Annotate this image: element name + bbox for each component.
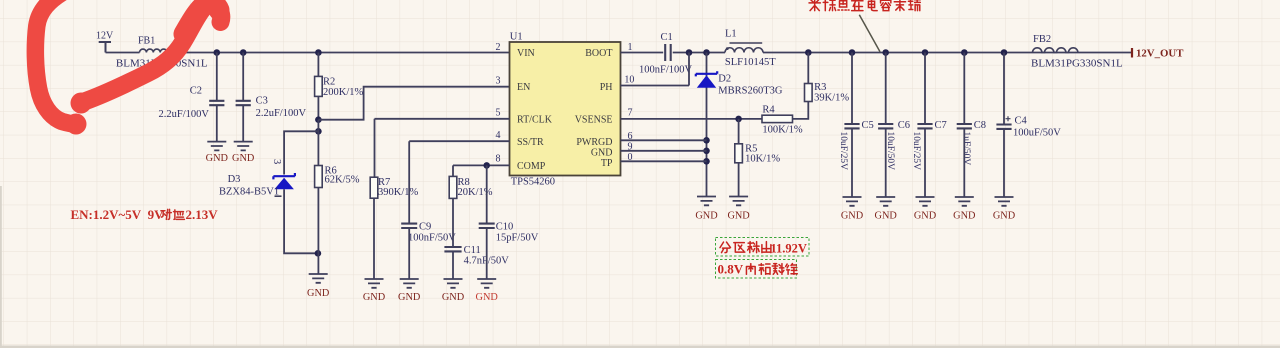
annotation EN CJK duiying	[161, 209, 171, 219]
capacitor C4	[996, 125, 1011, 129]
junction C4 on output rail	[1001, 49, 1008, 56]
wire L1 to output rail	[763, 52, 1132, 54]
wire PH feedback	[621, 53, 690, 86]
wire C8 upper lead	[963, 53, 965, 125]
wire BOOT to C1	[621, 52, 664, 54]
svg-text:GND: GND	[727, 211, 750, 222]
junction R3 on output rail	[805, 49, 812, 56]
wire C7 lower lead	[924, 128, 926, 197]
junction COMP C10	[483, 162, 490, 169]
ground symbol C3	[234, 142, 253, 151]
annotation callout line	[859, 15, 880, 52]
op-amp U1 TPS54260 body	[510, 42, 621, 176]
svg-text:D3: D3	[228, 174, 241, 185]
junction VSENSE R5	[735, 116, 742, 123]
junction C6 on output rail	[882, 49, 889, 56]
capacitor C9	[401, 224, 417, 228]
capacitor C3	[236, 101, 251, 105]
svg-text:8: 8	[496, 154, 501, 165]
wire R7 lower lead	[373, 198, 375, 279]
svg-text:EN:1.2V~5V 9V: EN:1.2V~5V 9V	[71, 207, 165, 222]
svg-text:GND: GND	[591, 148, 613, 159]
svg-text:C9: C9	[419, 222, 431, 233]
ferrite bead FB1	[140, 49, 168, 52]
svg-text:GND: GND	[398, 292, 421, 303]
wire D3 cathode net	[284, 131, 318, 174]
junction C2 on input rail	[214, 49, 221, 56]
wire C2 upper lead	[216, 53, 218, 101]
svg-text:GND: GND	[993, 211, 1016, 222]
annotation box divider output	[716, 238, 810, 257]
svg-text:100nF/100V: 100nF/100V	[639, 65, 693, 76]
wire EN net to IC	[318, 87, 509, 120]
junction BOOT-PH node	[686, 49, 693, 56]
svg-text:7: 7	[628, 108, 633, 119]
svg-text:C5: C5	[862, 120, 874, 131]
wire C10 lower lead	[486, 228, 488, 279]
wire D3 anode pin tick	[275, 195, 282, 197]
inductor L1 shield bar	[730, 42, 763, 44]
wire COMP net	[453, 165, 510, 176]
wire C3 upper lead	[242, 53, 244, 101]
svg-text:GND: GND	[476, 292, 499, 303]
wire VSENSE net	[621, 118, 763, 120]
wire R2 to R6	[317, 120, 319, 166]
annotation box internal ref	[716, 260, 797, 279]
wire R6 lower lead	[317, 188, 319, 275]
wire R2 upper lead	[317, 53, 319, 77]
junction R2 on input rail	[315, 49, 322, 56]
svg-text:2: 2	[496, 42, 501, 53]
wire 12V to FB1	[106, 52, 140, 54]
svg-text:C3: C3	[256, 96, 268, 107]
svg-text:100K/1%: 100K/1%	[762, 125, 803, 136]
wire C5 lower lead	[851, 128, 853, 197]
wire FB1 to VIN rail	[167, 52, 509, 54]
wire R5 upper lead	[738, 119, 740, 144]
ground symbol C6	[876, 197, 895, 206]
junction C5 on output rail	[849, 49, 856, 56]
wire D3 anode down	[284, 189, 318, 253]
svg-text:1: 1	[628, 42, 633, 53]
svg-text:RT/CLK: RT/CLK	[517, 114, 553, 125]
junction D2 node	[703, 49, 710, 56]
ferrite bead FB2	[1033, 48, 1078, 53]
svg-text:11.92V: 11.92V	[771, 242, 807, 256]
svg-text:10: 10	[624, 75, 634, 86]
ground symbol C4	[995, 197, 1014, 206]
schottky diode D2	[696, 71, 717, 76]
svg-text:2.2uF/100V: 2.2uF/100V	[159, 109, 210, 120]
ground symbol C8	[955, 197, 974, 206]
svg-text:TP: TP	[601, 158, 613, 169]
svg-text:GND: GND	[953, 211, 976, 222]
capacitor C6	[878, 124, 893, 128]
resistor R8	[449, 176, 457, 198]
wire R8 to C11	[452, 198, 454, 247]
wire C5 upper lead	[851, 53, 853, 125]
svg-text:GND: GND	[914, 211, 937, 222]
svg-text:GND: GND	[206, 153, 229, 164]
svg-text:C6: C6	[898, 120, 910, 131]
junction GND pin on D2 net	[703, 148, 710, 155]
inductor L1	[725, 48, 763, 53]
resistor R4	[762, 115, 793, 122]
capacitor C2	[209, 101, 224, 105]
ground symbol R7	[365, 279, 384, 288]
svg-text:C2: C2	[190, 86, 202, 97]
svg-text:TPS54260: TPS54260	[511, 177, 555, 188]
port 12V_OUT tick	[1131, 48, 1133, 58]
wire RT/CLK net	[375, 119, 510, 177]
annotation internal ref CJK	[746, 264, 755, 275]
svg-text:PWRGD: PWRGD	[576, 137, 612, 148]
annotation sampling point text	[809, 0, 820, 11]
wire C4 upper lead	[1003, 53, 1005, 125]
svg-text:BOOT: BOOT	[585, 48, 612, 59]
wire R2 lower lead	[317, 96, 319, 119]
svg-text:PH: PH	[600, 82, 613, 93]
wire GND pin stub	[621, 150, 707, 152]
wire SS/TR net	[409, 141, 509, 223]
svg-text:200K/1%: 200K/1%	[323, 87, 364, 98]
svg-text:2.2uF/100V: 2.2uF/100V	[256, 108, 307, 119]
svg-text:C4: C4	[1015, 116, 1028, 127]
wire C3 lower lead	[242, 105, 244, 141]
capacitor C11	[444, 247, 461, 251]
svg-text:0.8V: 0.8V	[718, 262, 744, 277]
junction C3 on input rail	[240, 49, 247, 56]
ground symbol D2	[697, 197, 716, 206]
wire C4 lower lead	[1003, 129, 1005, 197]
wire C2 lower lead	[216, 105, 218, 141]
svg-text:SLF10145T: SLF10145T	[725, 57, 776, 68]
svg-text:COMP: COMP	[517, 161, 546, 172]
junction D3 R6 ground node	[315, 250, 322, 257]
capacitor C5	[844, 124, 859, 128]
resistor R7	[370, 177, 378, 198]
resistor R3	[805, 84, 813, 102]
wire R5 lower lead	[738, 163, 740, 197]
svg-text:EN: EN	[517, 82, 530, 93]
svg-text:10uF/25V: 10uF/25V	[911, 132, 921, 171]
svg-text:390K/1%: 390K/1%	[378, 187, 419, 198]
photo bottom edge shading	[0, 346, 1280, 348]
svg-text:R4: R4	[762, 105, 775, 116]
red marker diagonal stroke	[80, 4, 221, 103]
wire C8 lower lead	[963, 128, 965, 197]
annotation divider output CJK	[720, 242, 731, 253]
red marker left arc	[35, 0, 75, 124]
svg-text:GND: GND	[695, 211, 718, 222]
svg-text:C11: C11	[464, 245, 481, 256]
ground symbol R6 D3	[309, 274, 328, 283]
svg-text:GND: GND	[841, 211, 864, 222]
wire R3 upper lead	[807, 53, 809, 84]
svg-text:L1: L1	[725, 29, 737, 40]
svg-text:VIN: VIN	[517, 48, 535, 59]
svg-text:62K/5%: 62K/5%	[325, 175, 360, 186]
svg-text:GND: GND	[307, 288, 330, 299]
resistor R5	[735, 144, 743, 163]
svg-text:FB1: FB1	[138, 36, 155, 47]
svg-text:C7: C7	[935, 120, 947, 131]
svg-text:GND: GND	[363, 292, 386, 303]
ground symbol R5	[729, 197, 748, 206]
svg-text:15pF/50V: 15pF/50V	[496, 233, 539, 244]
svg-text:D2: D2	[718, 74, 731, 85]
wire C10 upper lead	[486, 165, 488, 223]
svg-text:C1: C1	[661, 32, 673, 43]
svg-text:VSENSE: VSENSE	[575, 114, 613, 125]
svg-text:5: 5	[496, 108, 501, 119]
svg-text:MBRS260T3G: MBRS260T3G	[718, 86, 783, 97]
svg-text:U1: U1	[510, 32, 523, 43]
svg-text:SS/TR: SS/TR	[517, 137, 544, 148]
wire C1 to PH node	[673, 52, 725, 54]
power port 12V bar symbol	[99, 42, 111, 53]
wire C9 lower lead	[408, 228, 410, 279]
svg-text:GND: GND	[875, 211, 898, 222]
ground symbol C2	[207, 142, 226, 151]
svg-text:100nF/50V: 100nF/50V	[408, 233, 456, 244]
svg-text:BZX84-B5V1: BZX84-B5V1	[219, 187, 279, 198]
zener diode D3	[273, 173, 295, 179]
junction C7 on output rail	[922, 49, 929, 56]
svg-text:3: 3	[496, 76, 501, 87]
svg-text:100uF/50V: 100uF/50V	[1013, 128, 1061, 139]
ground symbol C9	[400, 279, 419, 288]
junction TP on D2 net	[703, 158, 710, 165]
svg-text:FB2: FB2	[1033, 34, 1051, 45]
capacitor C7	[917, 124, 932, 128]
svg-text:C10: C10	[496, 222, 514, 233]
svg-text:GND: GND	[442, 292, 465, 303]
ground symbol C10	[477, 279, 496, 288]
svg-text:3: 3	[271, 159, 282, 164]
svg-text:10K/1%: 10K/1%	[745, 154, 780, 165]
svg-text:12V: 12V	[96, 31, 114, 42]
junction PWRGD on D2 net	[703, 137, 710, 144]
wire R3 to R4	[793, 102, 808, 119]
junction node D3 tap	[315, 128, 322, 135]
svg-text:1uF/50V: 1uF/50V	[961, 132, 971, 166]
junction node EN divider	[315, 116, 322, 123]
svg-text:4: 4	[496, 130, 501, 141]
junction C8 on output rail	[961, 49, 968, 56]
svg-text:12V_OUT: 12V_OUT	[1136, 48, 1184, 60]
svg-text:2.13V: 2.13V	[186, 207, 219, 222]
svg-text:R3: R3	[814, 82, 826, 93]
capacitor C10	[479, 224, 495, 228]
wire C11 lower lead	[452, 251, 454, 279]
wire C6 upper lead	[885, 53, 887, 125]
wire TP stub	[621, 160, 707, 162]
wire PWRGD stub	[621, 139, 707, 141]
wire C7 upper lead	[924, 53, 926, 125]
ground symbol C7	[916, 197, 935, 206]
capacitor C4 plus mark	[1006, 116, 1011, 121]
resistor R6	[315, 166, 323, 188]
svg-text:GND: GND	[232, 153, 255, 164]
svg-text:C8: C8	[974, 120, 986, 131]
ground symbol C5	[843, 197, 862, 206]
svg-text:39K/1%: 39K/1%	[814, 93, 849, 104]
wire D2 vertical	[706, 53, 708, 197]
ground symbol C11	[444, 279, 463, 288]
svg-text:R2: R2	[323, 77, 335, 88]
wire C6 lower lead	[885, 128, 887, 197]
capacitor C1 series	[665, 44, 671, 61]
svg-text:10uF/25V: 10uF/25V	[838, 132, 848, 171]
capacitor C8	[957, 124, 972, 128]
svg-text:BLM31PG330SN1L: BLM31PG330SN1L	[1031, 58, 1123, 70]
resistor R2	[315, 76, 323, 96]
